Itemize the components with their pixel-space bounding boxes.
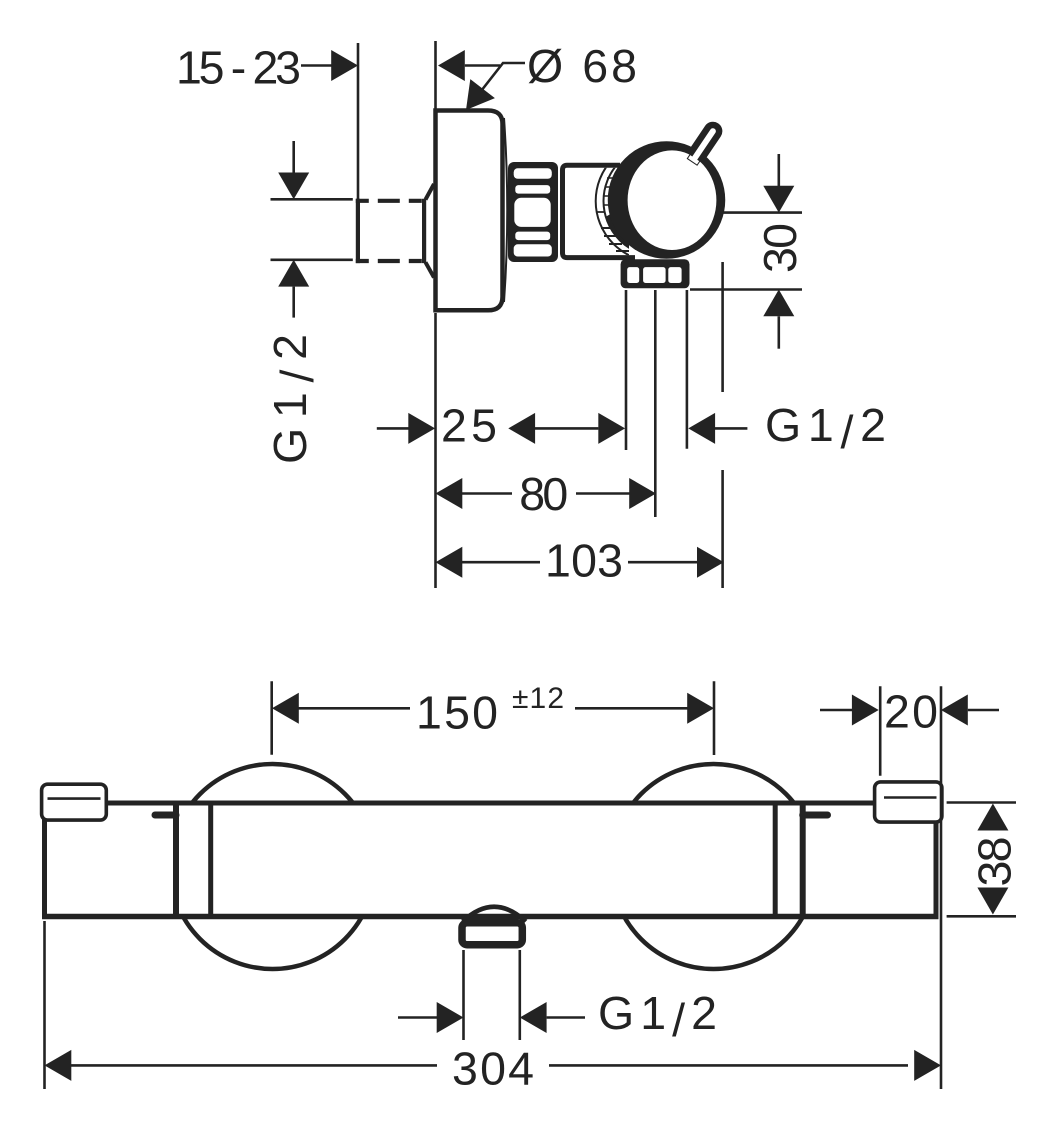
extension line below outlet right: [686, 290, 689, 449]
dimension 304 left arrow: [45, 1050, 72, 1081]
svg-text:±12: ±12: [512, 682, 564, 715]
extension line outlet centre: [654, 290, 657, 517]
dimension 30 lower shaft: [777, 316, 780, 348]
dimension 15-23 arrow right-pointing: [331, 50, 358, 81]
svg-text:38: 38: [968, 837, 1020, 887]
bottom G1/2 right extension: [518, 950, 521, 1040]
left G1/2 up arrow: [278, 260, 309, 287]
dimension 38 bottom reference line: [947, 915, 1016, 918]
left knob circle: [170, 764, 375, 969]
dimension 80 left line: [461, 492, 512, 495]
connector chamfer top: [426, 184, 435, 200]
row1 right-pointing arrow at 435: [408, 413, 435, 444]
bottom G1/2 left extension: [462, 950, 465, 1040]
bottom outlet dome flange: [463, 907, 526, 922]
right wall cap inner line: [884, 796, 937, 799]
knob grip rim inner arc: [604, 146, 715, 257]
dimension 20 left-pointing arrow: [941, 695, 968, 726]
dimension 304 right line: [549, 1064, 908, 1067]
connector chamfer bottom: [426, 262, 435, 277]
row1 stub line to G1/2 label: [715, 427, 747, 430]
knob grip hatch ticks top-left: [604, 178, 615, 205]
valve body: [563, 165, 636, 257]
left G1/2 upper shaft: [292, 141, 295, 173]
inner vertical joint far-left: [173, 806, 179, 915]
row1 left-pointing arrow at 688: [688, 413, 715, 444]
dimension 150 right extension: [713, 681, 716, 755]
right knob circle: [611, 764, 816, 969]
svg-text:150: 150: [416, 687, 498, 739]
extension line x=435.5 lower: [434, 313, 437, 588]
left wall cap inner line: [48, 797, 101, 800]
left G1/2 top reference line: [271, 198, 353, 201]
knob grip rim seam tick: [597, 211, 605, 213]
bottom G1/2 left line: [398, 1016, 437, 1019]
dimension 80 left arrow: [436, 478, 463, 509]
bar bottom edge: [42, 914, 939, 920]
dimension 304 left extension: [43, 921, 46, 1089]
bottom outlet nut (G1/2): [621, 259, 690, 288]
dimension 150 left extension: [270, 681, 273, 755]
escutcheon (wall plate, diameter 68): [436, 111, 503, 311]
dimension 30 bottom reference line: [690, 288, 802, 291]
left G1/2 down arrow: [278, 173, 309, 200]
left G1/2 lower shaft: [292, 287, 295, 318]
bar top edge: [106, 801, 876, 806]
dimension 150 left line: [298, 707, 410, 710]
thermostat knob outer disc: [608, 141, 726, 259]
row1 double arrow line: [535, 427, 598, 430]
thermostat knob front face: [628, 150, 717, 250]
dimension 38 top reference line: [947, 801, 1016, 804]
dimension 15-23 line left: [301, 64, 332, 67]
union nut (knurled): [508, 162, 558, 262]
bar right edge: [934, 821, 939, 917]
dimension row 25 / G1/2: approach line: [377, 427, 409, 430]
dimension 38 up arrow: [977, 804, 1008, 831]
svg-text:G1/2: G1/2: [765, 399, 886, 458]
dimension 103 right arrow: [697, 547, 724, 578]
svg-text:80: 80: [519, 468, 568, 520]
diameter 68 leader arrowhead: [466, 79, 495, 110]
svg-text:G1/2: G1/2: [598, 987, 717, 1046]
extension line x=358 (wall face): [357, 43, 360, 199]
dimension 30 down arrow: [763, 186, 794, 213]
svg-text:G1/2: G1/2: [264, 334, 323, 464]
svg-text:Ø 68: Ø 68: [527, 40, 637, 92]
knob lever handle: [687, 123, 721, 166]
inner vertical joint left: [208, 806, 213, 915]
svg-text:15 - 23: 15 - 23: [176, 42, 301, 94]
knob grip rim outer arc: [596, 141, 717, 262]
dimension 150 right arrow: [687, 693, 714, 724]
dimension 80 right line: [576, 492, 630, 495]
escutcheon profile arc: [504, 118, 507, 302]
left G1/2 bottom reference line: [271, 258, 353, 261]
dimension 103 left line: [461, 561, 540, 564]
dimension 80 right arrow: [629, 478, 656, 509]
dimension 20 left extension: [879, 686, 882, 776]
dimension 20 left line: [820, 709, 853, 712]
right wall cap: [875, 782, 942, 822]
left face tick: [155, 812, 176, 819]
bottom outlet nut: [462, 923, 522, 945]
dimension 20 right line: [968, 709, 999, 712]
knob grip shaded band bottom-left: [606, 208, 652, 255]
row1 double outside arrow left head: [508, 413, 535, 444]
bar left edge: [42, 819, 47, 917]
extension line below outlet left: [625, 290, 628, 450]
dimension 150 left arrow: [272, 693, 299, 724]
bottom G1/2 right-pointing arrow: [437, 1002, 464, 1033]
wall supply connector body: [356, 199, 360, 263]
extension line x=435.5 upper: [434, 41, 437, 112]
dimension 103 left arrow: [436, 547, 463, 578]
dimension 30 upper shaft: [777, 154, 780, 187]
right face tick: [803, 812, 828, 819]
dimension 15-23 arrow left-pointing at x435: [438, 50, 465, 81]
inner vertical joint far-right: [800, 806, 806, 915]
extension line x=722.6 lower segment: [721, 470, 724, 588]
svg-text:304: 304: [452, 1043, 534, 1095]
svg-text:103: 103: [545, 535, 623, 587]
svg-text:30: 30: [754, 223, 806, 273]
wall connector threaded top edge (dashed): [356, 199, 426, 203]
knob grip knurl white dashes: [601, 228, 630, 251]
dimension 38 down arrow: [977, 888, 1008, 915]
dimension 30 up arrow: [763, 290, 794, 317]
row1 double outside arrow right head: [598, 413, 625, 444]
wall connector threaded bottom edge (dashed): [356, 259, 426, 263]
dimension 20 right extension (continues to 304 row): [940, 686, 943, 1089]
bottom G1/2 right line: [547, 1016, 585, 1019]
extension line x=722.6 upper segment: [721, 262, 724, 392]
inner vertical joint right: [773, 806, 778, 915]
dimension 150 right line: [575, 707, 688, 710]
left wall cap: [42, 784, 107, 820]
dimension 20 right-pointing arrow: [852, 695, 879, 726]
dimension 304 right arrow: [914, 1050, 941, 1081]
dimension 103 right line: [628, 561, 698, 564]
dimension 30 top reference line: [723, 211, 802, 214]
diameter 68 leader line: [474, 63, 525, 100]
bottom G1/2 left-pointing arrow: [520, 1002, 547, 1033]
bar body fill (hides circle midsections): [40, 801, 939, 919]
dimension 304 left line: [71, 1064, 437, 1067]
dimension 15-23 stub line: [465, 64, 500, 67]
